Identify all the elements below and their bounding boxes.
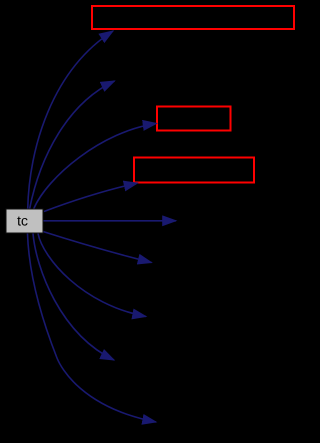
node: lower red box (truncated node 3) — [134, 158, 254, 183]
wire: edge tc -> node9 (hidden) — [28, 234, 157, 423]
wire: edge tc -> node5 (hidden), horizontal — [44, 220, 177, 222]
node: middle red box (truncated node 2) — [157, 107, 231, 131]
wire: edge tc -> node6 (hidden) — [43, 232, 152, 263]
node tc (grey box) — [6, 209, 43, 233]
wire: edge tc -> node8 (hidden) — [33, 234, 114, 361]
wire: edge tc -> top red box — [28, 31, 113, 209]
node: top red box (truncated node 1) — [92, 6, 294, 29]
wire: edge tc -> node2 (hidden) — [30, 81, 115, 209]
wire: edge tc -> middle red box — [34, 124, 157, 210]
label tc — [17, 216, 27, 225]
wire: edge tc -> lower red box — [44, 183, 138, 212]
wire: edge tc -> node7 (hidden) — [38, 234, 146, 317]
